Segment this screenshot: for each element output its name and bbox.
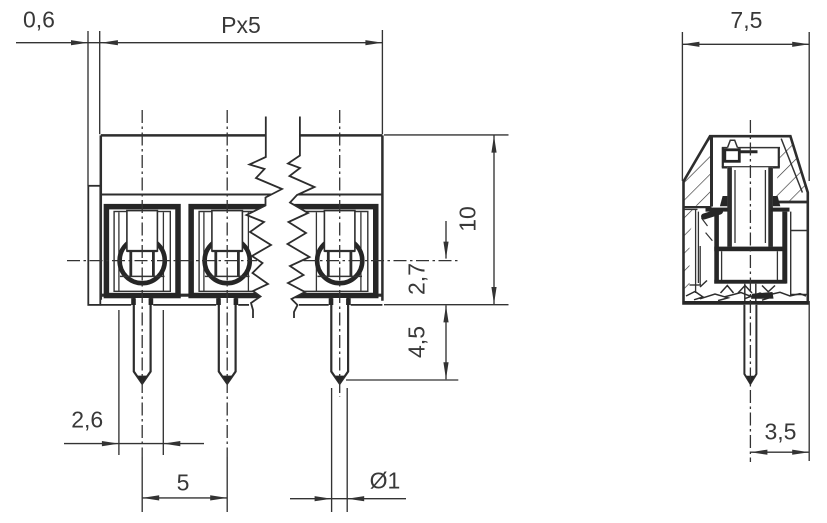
solder pin 2 <box>219 298 236 384</box>
svg-text:7,5: 7,5 <box>730 7 762 33</box>
side view: screw head <box>722 148 780 168</box>
svg-text:Px5: Px5 <box>221 12 261 38</box>
vertical centre line position 1 <box>141 110 143 457</box>
extension line body left edge <box>99 31 101 134</box>
side view: mould notch above screw <box>728 140 738 147</box>
break line right zig-zag <box>288 117 315 319</box>
svg-text:2,7: 2,7 <box>404 263 430 295</box>
side view: left cavity wall <box>685 138 713 294</box>
side view: screw shaft <box>727 167 773 247</box>
solder pin 3 <box>331 298 348 384</box>
housing bottom step / feet <box>101 298 383 305</box>
svg-text:10: 10 <box>455 206 481 232</box>
side view: housing bottom edge <box>682 301 809 305</box>
side view: moulded bottom squiggle <box>686 281 806 301</box>
side view: clamp bottom bar <box>714 280 786 284</box>
side view: right wall hatching <box>775 137 808 202</box>
dimension 2,6: clamp opening <box>64 310 204 455</box>
extension line body right edge <box>381 30 383 134</box>
side view: clamp step bands <box>706 208 790 212</box>
svg-text:0,6: 0,6 <box>23 7 55 33</box>
front view: housing body outline <box>101 135 383 300</box>
dimension 7,5: housing depth <box>682 32 809 181</box>
vertical centre line position 3 <box>339 110 341 397</box>
terminal position 2 frame, clamp and screw <box>191 207 268 296</box>
dimension 10: housing height <box>384 135 509 305</box>
side view: screw slot <box>725 150 758 162</box>
svg-text:3,5: 3,5 <box>765 419 797 445</box>
svg-text:Ø1: Ø1 <box>370 468 401 494</box>
side view: wire clamp flap <box>704 212 720 217</box>
extension line flange left edge <box>87 31 89 186</box>
horizontal screw axis centre line (right of break) <box>304 260 460 262</box>
side view: pin shank inside housing <box>745 284 756 301</box>
side view: pin <box>744 305 756 384</box>
side view: left wall hatching <box>684 137 712 206</box>
side view: clamp top hooks <box>720 196 780 206</box>
solder pin 1 <box>134 298 151 384</box>
dimension 3,5: pin to edge <box>750 301 809 461</box>
dimension 2,7: screw axis to bottom <box>443 221 448 259</box>
side view: housing outline <box>684 136 808 301</box>
dimension 4,5: bottom to pin tip <box>346 305 458 380</box>
svg-text:4,5: 4,5 <box>404 326 430 358</box>
dimension 0,6 and Px5: dim line <box>16 40 382 45</box>
side view: pin centre line <box>749 120 751 462</box>
dimension diameter 1: pin <box>290 388 406 512</box>
side view: left wall lower hatching <box>684 210 694 295</box>
side view: right wall step <box>775 202 808 296</box>
terminal position 3 frame, clamp and screw <box>288 207 376 296</box>
break region mask (white) <box>247 117 315 319</box>
svg-text:5: 5 <box>177 470 190 496</box>
svg-text:2,6: 2,6 <box>71 407 103 433</box>
dimension 5: pin pitch <box>142 457 227 512</box>
horizontal screw axis centre line (left of break) <box>67 260 257 262</box>
side view: clamp shoulder bar <box>714 247 787 252</box>
side view: clamp cage walls <box>717 212 785 284</box>
terminal position 1 frame, clamp and screw <box>106 207 178 296</box>
front view: left mounting flange <box>88 186 100 305</box>
break line left zig-zag <box>247 117 283 319</box>
vertical centre line position 2 <box>226 110 228 457</box>
side view: right wall inner slope <box>781 139 802 193</box>
